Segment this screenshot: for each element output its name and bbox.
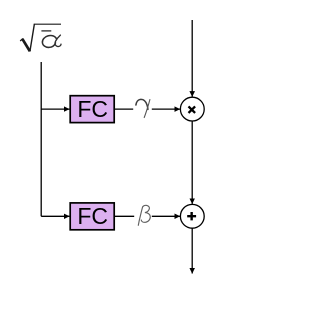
wire: top input arrow into multiply (191, 20, 193, 97)
plus node circle (180, 204, 204, 228)
sqrt alpha-bar label: alpha glyph (42, 35, 61, 47)
FC box 1 (70, 96, 114, 123)
FC box 2 (70, 203, 114, 230)
svg-text:FC: FC (77, 203, 108, 229)
sqrt alpha-bar label: radical sign (20, 24, 61, 52)
wire: FC1 to multiply circle with arrow (114, 108, 180, 110)
wire: main vertical from label (40, 62, 42, 216)
wire: output arrow from plus (191, 228, 193, 273)
wire: branch to FC1 with arrow (41, 108, 69, 110)
svg-text:FC: FC (77, 96, 108, 122)
wire: FC2 to plus circle with arrow (114, 215, 180, 217)
multiply node circle (180, 97, 204, 121)
gamma label (133, 99, 152, 117)
sqrt alpha-bar label: bar accent over alpha (41, 30, 51, 32)
wire: branch to FC2 with arrow (41, 215, 69, 217)
beta label (134, 205, 152, 225)
wire: multiply to plus arrow (191, 121, 193, 204)
